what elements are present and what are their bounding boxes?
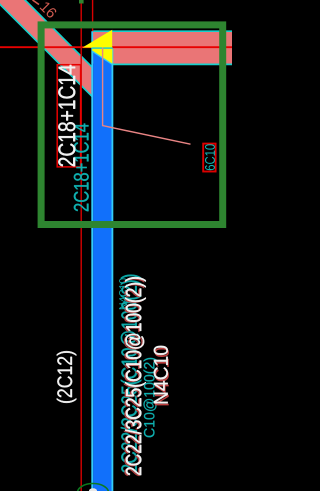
cyan copy of beam text — [121, 275, 142, 473]
grid line x81 — [80, 0, 82, 491]
label text 6C10 — [205, 144, 215, 170]
beam centerline — [0, 46, 232, 48]
white text N4C10 — [154, 346, 168, 404]
white rebar text 2C18+1C14 — [58, 65, 75, 166]
red copy N4C10 — [155, 348, 169, 406]
green tick — [79, 0, 84, 4]
grid line x92.6 top — [92, 0, 94, 32]
6C10 label box — [203, 144, 215, 172]
cyan rebar text 2C18+1C14 — [74, 124, 89, 212]
column right edge — [111, 49, 113, 491]
small triangle hypotenuse edge — [92, 51, 112, 64]
white beam text — [125, 277, 146, 475]
white tip in ellipse — [89, 488, 97, 491]
white text (2C12) — [57, 351, 77, 403]
horizontal beam fill — [92, 32, 232, 64]
diagonal beam lower edge — [0, 0, 92, 97]
cyan line under big triangle — [92, 47, 113, 49]
column left edge — [91, 31, 93, 491]
diagonal beam upper edge — [15, 0, 92, 67]
diagonal beam fill — [0, 0, 92, 97]
cyan stirrup text — [144, 358, 158, 437]
red glyph fragment top — [33, 0, 40, 5]
small yellow triangle — [92, 49, 112, 65]
big yellow triangle — [82, 30, 112, 48]
rebar label box — [57, 65, 80, 167]
red copy of beam text — [124, 278, 145, 476]
leader line — [103, 48, 191, 145]
small cyan N4C10 — [119, 278, 127, 309]
horizontal beam top edge — [92, 30, 232, 32]
column fill — [93, 49, 111, 491]
horizontal beam bottom edge — [113, 63, 233, 65]
red diagonal text 16 — [40, 1, 58, 19]
green ellipse at bottom — [78, 484, 109, 491]
green selection rectangle — [41, 25, 223, 225]
